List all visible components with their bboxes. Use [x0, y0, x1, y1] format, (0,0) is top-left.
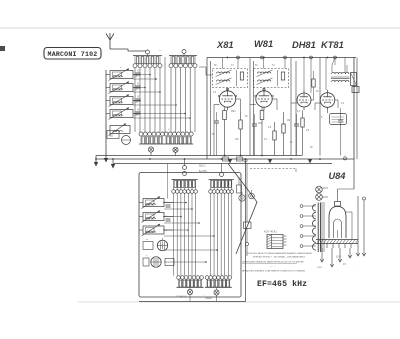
- svg-text:6,3V: 6,3V: [336, 256, 341, 259]
- svg-text:MARCONI 7102: MARCONI 7102: [48, 51, 98, 58]
- svg-text:NOTE: ALL VALVE VOLTAGES MEASU: NOTE: ALL VALVE VOLTAGES MEASURED AGAINS…: [247, 252, 312, 255]
- svg-text:WITH AVO MODEL 7 – NO SIGNAL –: WITH AVO MODEL 7 – NO SIGNAL – 230V MAIN…: [253, 256, 306, 259]
- svg-text:m: m: [146, 239, 148, 241]
- svg-text:1M: 1M: [287, 120, 290, 122]
- svg-text:2M2: 2M2: [231, 111, 236, 113]
- svg-text:KT81: KT81: [321, 40, 344, 50]
- svg-text:···: ···: [273, 239, 275, 241]
- svg-text:···: ···: [160, 150, 163, 153]
- svg-text:4V: 4V: [343, 263, 346, 266]
- svg-text:U84: U84: [329, 171, 346, 181]
- svg-text:ВКЛ 2: ВКЛ 2: [199, 165, 206, 168]
- svg-text:X81: X81: [216, 40, 234, 50]
- svg-text:·—·: ·—·: [158, 48, 163, 52]
- svg-text:UNDERLINED READINGS TAKEN WITH: UNDERLINED READINGS TAKEN WITH A 20,000 …: [242, 261, 304, 264]
- svg-text:···: ···: [273, 236, 275, 238]
- svg-text:GRAM: GRAM: [205, 297, 212, 300]
- svg-text:MΩ: MΩ: [109, 135, 113, 138]
- svg-text:220V: 220V: [317, 267, 323, 269]
- svg-text:METALLISED SURFACE COMPONENTS: METALLISED SURFACE COMPONENTS CONNECTED …: [242, 270, 306, 273]
- svg-text:DH81: DH81: [292, 40, 316, 50]
- svg-text:···: ···: [273, 245, 275, 247]
- svg-text:— · —: — · —: [270, 266, 276, 268]
- svg-text:··: ··: [352, 267, 354, 270]
- svg-text:···: ···: [273, 242, 275, 244]
- svg-text:TO RADIO: TO RADIO: [176, 295, 187, 298]
- svg-text:W81: W81: [254, 39, 273, 49]
- svg-text:EF=465 kHz: EF=465 kHz: [257, 279, 307, 289]
- svg-text:B+ 85V: B+ 85V: [199, 170, 207, 173]
- svg-text:KOY 40 81: KOY 40 81: [264, 230, 277, 234]
